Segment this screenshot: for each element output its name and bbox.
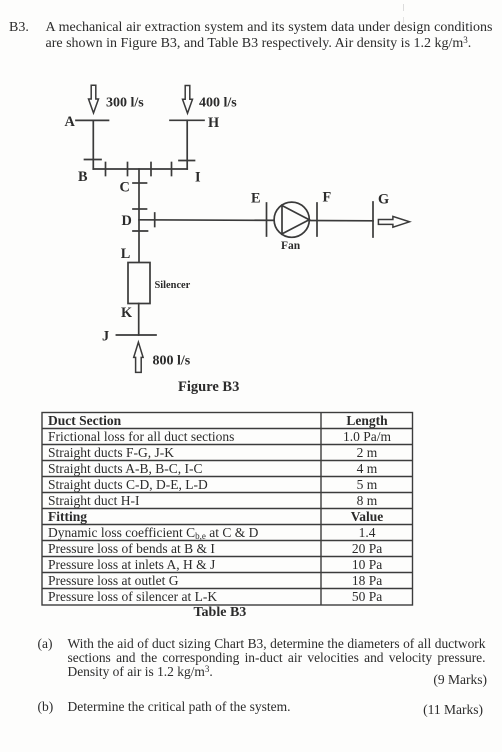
duct tick 4	[171, 163, 173, 176]
supply arrow 300 l/s	[89, 85, 99, 113]
table row: inlets A, H & J	[48, 558, 318, 573]
table row: F-G, J-K	[48, 446, 318, 461]
table row: frictional loss	[48, 430, 318, 445]
caption Table B3	[194, 605, 247, 621]
tick below D	[133, 230, 148, 232]
tick right of D	[154, 213, 156, 227]
table row: header Fitting / Value	[48, 510, 318, 525]
table row: H-I	[48, 494, 318, 509]
table row: header Duct Section / Length	[48, 414, 318, 429]
bend tick at B	[85, 159, 102, 161]
marks (b)	[383, 702, 483, 718]
inlet grille H	[170, 119, 204, 121]
duct B-I horizontal	[93, 168, 187, 170]
fan impeller triangle	[282, 206, 309, 234]
header paragraph	[46, 20, 493, 51]
duct D-E-F-G horizontal	[139, 220, 373, 221]
table row: dynamic loss coefficient	[48, 526, 318, 541]
duct K-J	[138, 304, 140, 336]
table column divider	[320, 413, 322, 606]
inlet grille A	[76, 119, 109, 121]
table row: bends B & I	[48, 542, 318, 557]
duct tick 3	[150, 163, 152, 176]
outlet bar G	[372, 202, 374, 237]
duct C-L vertical	[138, 169, 140, 263]
supply arrow 400 l/s	[183, 86, 193, 114]
table row rules	[42, 428, 413, 430]
part (a) text	[68, 637, 486, 680]
duct H-I	[186, 120, 188, 169]
silencer body	[128, 263, 150, 304]
duct A-B	[92, 120, 94, 169]
flange E	[266, 203, 268, 236]
inlet grille J	[116, 334, 156, 336]
table row: C-D, D-E, L-D	[48, 478, 318, 493]
tick above D	[133, 208, 147, 210]
question number B3.	[9, 20, 29, 36]
tick at C	[133, 182, 147, 184]
part (a) label	[38, 637, 53, 651]
duct tick 2	[127, 163, 129, 176]
marks (a)	[387, 672, 487, 688]
scan mark top	[403, 4, 404, 11]
part (b) label	[38, 700, 54, 714]
outlet arrow at G	[378, 216, 409, 227]
part (b) text	[68, 700, 291, 714]
exhaust arrow 800 l/s	[134, 342, 143, 372]
flange F	[316, 203, 318, 236]
bend tick at I	[179, 160, 195, 162]
fan U1 circle	[274, 202, 309, 237]
duct tick 1	[105, 163, 107, 176]
table row: outlet G	[48, 574, 318, 589]
table row: silencer L-K	[48, 590, 318, 605]
table outer border	[42, 413, 413, 606]
table row: A-B, B-C, I-C	[48, 462, 318, 477]
